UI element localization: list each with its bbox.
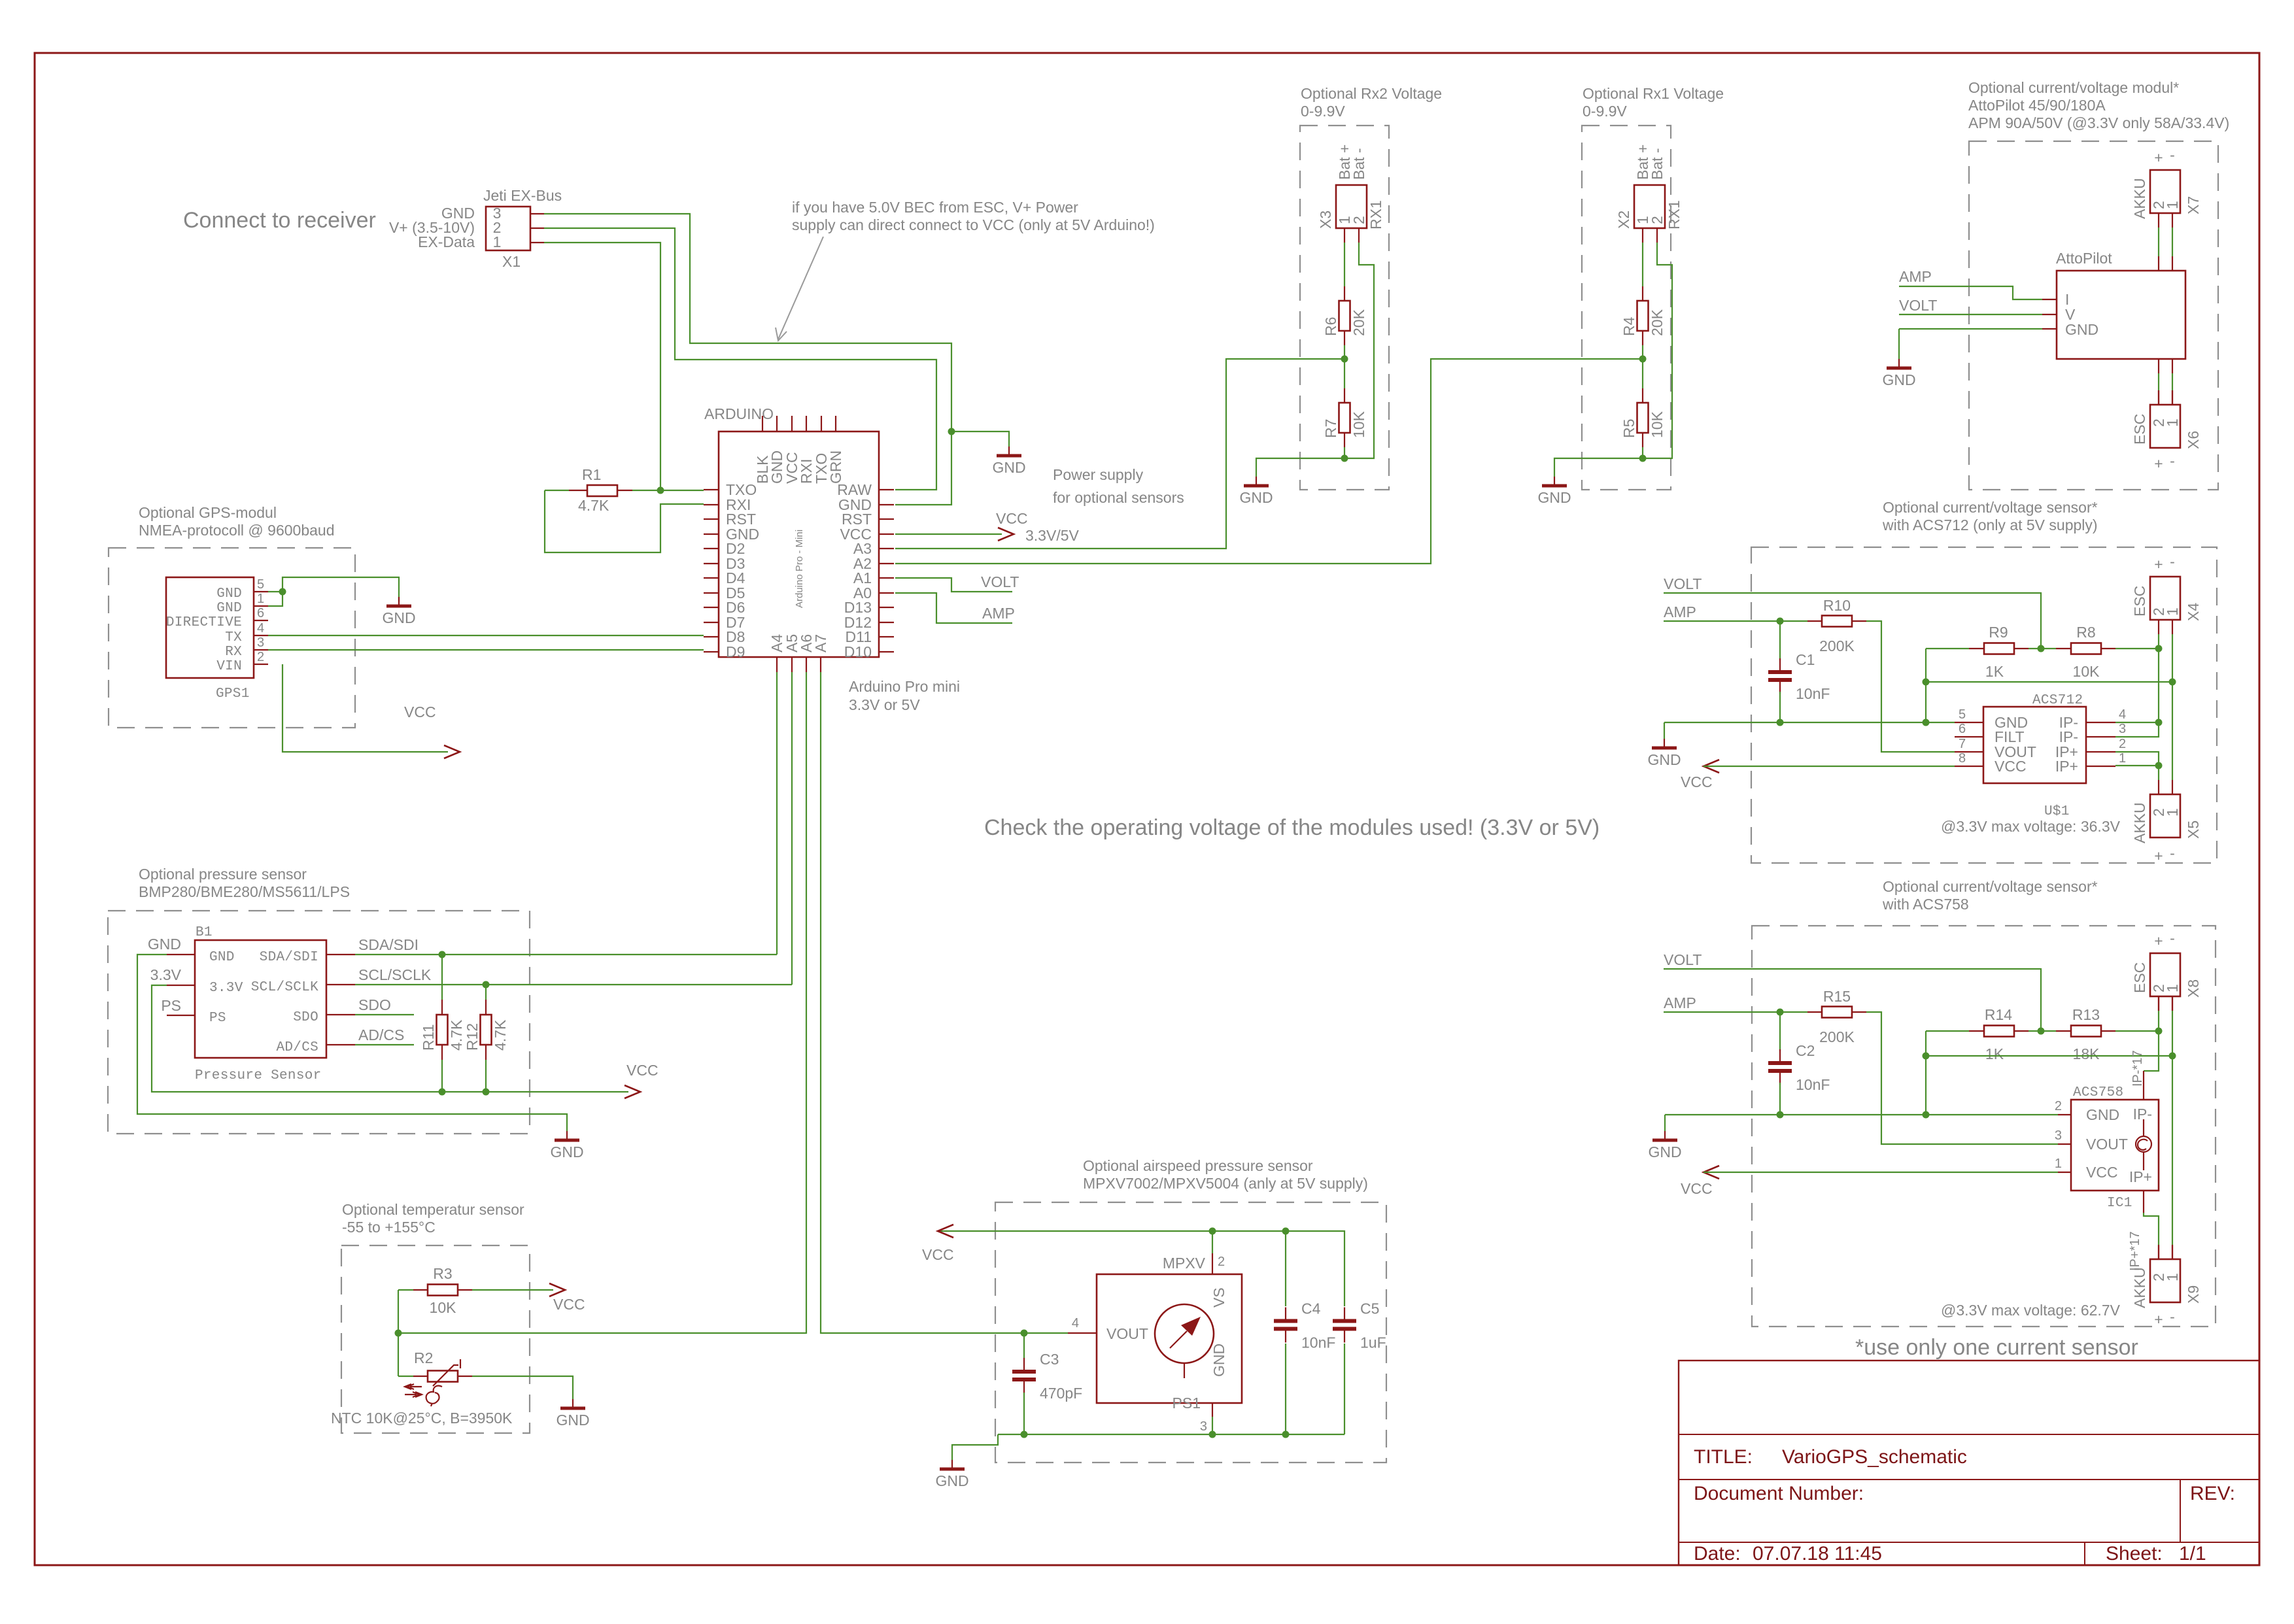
svg-text:VCC: VCC	[626, 1062, 659, 1079]
svg-text:ARDUINO: ARDUINO	[704, 405, 774, 422]
svg-text:C4: C4	[1301, 1300, 1321, 1317]
pressure sensor dashed outline	[108, 911, 530, 1134]
resistor R4 20K	[1642, 286, 1643, 301]
svg-text:2: 2	[2055, 1099, 2062, 1113]
Arduino left pin stubs	[704, 489, 719, 490]
svg-text:VCC: VCC	[553, 1296, 585, 1313]
junction Rx2 divider bottom	[1341, 455, 1348, 462]
svg-text:Optional pressure sensor: Optional pressure sensor	[139, 866, 307, 883]
wire R14 left leg down to GND rail	[1925, 1031, 1926, 1115]
VCC top rail of airspeed	[938, 1231, 1344, 1306]
svg-text:Optional airspeed pressure sen: Optional airspeed pressure sensor	[1083, 1157, 1313, 1174]
svg-text:7: 7	[1959, 737, 1966, 751]
junction Rx1 divider bottom	[1639, 455, 1647, 462]
ACS758 dashed outline	[1752, 926, 2216, 1327]
connector X5 AKKU	[2150, 794, 2180, 837]
wire X8 pin2 down to R13	[2158, 1011, 2159, 1031]
svg-text:-: -	[2170, 845, 2175, 862]
wire X4 pin2 down	[2158, 634, 2159, 649]
svg-text:R10: R10	[1823, 597, 1851, 614]
svg-text:GND: GND	[1239, 489, 1273, 506]
GPS dashed outline	[109, 548, 355, 728]
svg-text:-: -	[2170, 146, 2175, 163]
junction SCL/R12	[483, 981, 490, 989]
stub wire SDO	[355, 1014, 414, 1015]
svg-text:1K: 1K	[1985, 663, 2004, 680]
svg-text:SCL/SCLK: SCL/SCLK	[251, 980, 318, 995]
svg-text:TITLE:: TITLE:	[1694, 1446, 1753, 1468]
svg-text:MPXV7002/MPXV5004 (anly at 5V: MPXV7002/MPXV5004 (anly at 5V supply)	[1083, 1175, 1368, 1192]
connector X1	[486, 207, 530, 250]
wire VCC pin8	[1703, 766, 1955, 767]
resistor R12 4.7K	[485, 985, 487, 1000]
svg-text:Date:: Date:	[1694, 1543, 1741, 1565]
svg-text:+: +	[2154, 932, 2163, 949]
wire VOLT to V pin	[1899, 314, 2042, 315]
svg-text:B1: B1	[196, 925, 213, 940]
svg-text:10K: 10K	[1350, 411, 1367, 438]
ground symbol GPS	[398, 597, 400, 606]
svg-text:1: 1	[2164, 808, 2181, 817]
svg-text:1: 1	[2164, 418, 2181, 427]
Rx1 dashed outline	[1582, 126, 1671, 490]
svg-text:GND: GND	[1210, 1344, 1227, 1377]
svg-text:GPS1: GPS1	[216, 686, 250, 702]
svg-text:A7: A7	[812, 634, 829, 652]
svg-text:20K: 20K	[1350, 309, 1367, 336]
ACS758 pin stubs left	[2058, 1114, 2071, 1115]
svg-text:X2: X2	[1615, 211, 1632, 229]
svg-text:3.3V or 5V: 3.3V or 5V	[849, 696, 920, 713]
svg-text:TX: TX	[225, 630, 242, 645]
svg-text:10K: 10K	[1649, 411, 1666, 438]
wire X1 pin3 GND to Arduino GND and GND symbol	[544, 214, 951, 505]
wire A5 down to SCL net	[791, 672, 793, 985]
svg-text:R3: R3	[433, 1265, 452, 1282]
svg-text:GND: GND	[1647, 751, 1681, 768]
svg-text:R7: R7	[1322, 419, 1339, 438]
wire VOLT to R14/R13 junction	[1664, 969, 2041, 1031]
svg-text:IP-*17: IP-*17	[2131, 1050, 2145, 1087]
svg-text:Bat -: Bat -	[1350, 148, 1367, 180]
ground symbol Rx1	[1554, 477, 1555, 486]
wire Rx1 bottom to ground	[1554, 458, 1643, 477]
resistor R15 200K	[1807, 1011, 1822, 1013]
ground symbol ACS712	[1664, 739, 1665, 748]
wire A7 down to airspeed VOUT	[821, 672, 1024, 1333]
svg-text:2: 2	[257, 650, 264, 664]
NTC arrows symbol	[405, 1384, 422, 1389]
svg-text:2: 2	[1218, 1255, 1225, 1269]
svg-text:3: 3	[2055, 1128, 2062, 1143]
svg-text:GND: GND	[1882, 371, 1915, 388]
wire GND rail to ground symbol	[1664, 722, 1665, 739]
wire A0 to AMP net label	[895, 593, 1012, 623]
svg-text:@3.3V max voltage: 36.3V: @3.3V max voltage: 36.3V	[1941, 818, 2121, 835]
svg-text:GND: GND	[216, 586, 242, 601]
svg-text:1: 1	[2164, 1273, 2181, 1281]
svg-text:SDO: SDO	[293, 1010, 318, 1025]
junction C4 bottom	[1282, 1431, 1290, 1438]
svg-text:D9: D9	[726, 643, 745, 660]
junction GND/R9 branch	[1923, 719, 1930, 726]
svg-text:VOUT: VOUT	[1106, 1325, 1148, 1342]
resistor R14 1K	[1926, 1030, 1969, 1032]
svg-text:1: 1	[493, 233, 502, 250]
svg-text:4.7K: 4.7K	[578, 497, 609, 514]
svg-text:-: -	[2170, 1308, 2175, 1325]
svg-text:Optional GPS-modul: Optional GPS-modul	[139, 504, 277, 521]
svg-text:3: 3	[1200, 1419, 1207, 1434]
svg-text:Optional current/voltage modul: Optional current/voltage modul*	[1968, 79, 2179, 96]
GPS module GPS1	[166, 577, 254, 678]
resistor R10 200K	[1807, 620, 1822, 622]
junction Rx1 divider mid	[1639, 356, 1647, 363]
svg-text:20K: 20K	[1649, 309, 1666, 336]
svg-text:X9: X9	[2185, 1285, 2202, 1304]
svg-text:5: 5	[257, 577, 264, 592]
svg-text:IP+: IP+	[2129, 1168, 2152, 1185]
svg-text:VOLT: VOLT	[1664, 951, 1702, 968]
svg-text:VOUT: VOUT	[2086, 1136, 2128, 1153]
wire R1 bypass loop to RXI	[545, 490, 704, 552]
svg-text:5: 5	[1959, 707, 1966, 722]
Arduino top pin stubs BLK GND VCC RXI TXO GRN	[762, 416, 763, 431]
wire GND rail to ground symbol	[1664, 1115, 1666, 1131]
ground symbol near Arduino	[1008, 447, 1010, 456]
ground symbol Rx2	[1256, 477, 1257, 486]
ACS712 right pin stubs	[2086, 722, 2115, 723]
VCC supply arrow 3.3V/5V	[998, 528, 1014, 541]
wire IP- pin4 to X4 net	[2115, 722, 2159, 723]
svg-text:3.3V/5V: 3.3V/5V	[1025, 527, 1079, 544]
svg-text:NTC 10K@25°C, B=3950K: NTC 10K@25°C, B=3950K	[331, 1410, 513, 1427]
svg-text:R11: R11	[420, 1024, 437, 1051]
junction R11 bottom	[439, 1089, 446, 1096]
svg-text:C1: C1	[1796, 651, 1815, 668]
svg-text:4.7K: 4.7K	[492, 1019, 509, 1051]
svg-text:VCC: VCC	[1994, 758, 2027, 775]
svg-text:SDO: SDO	[358, 996, 391, 1013]
svg-text:-: -	[2170, 930, 2175, 947]
crossover rail to X5 pin1	[1926, 681, 2172, 683]
svg-text:GND: GND	[1648, 1143, 1681, 1160]
AttoPilot dashed outline	[1969, 141, 2218, 490]
junction C2 bottom	[1777, 1111, 1784, 1119]
svg-text:C2: C2	[1796, 1042, 1815, 1059]
wire SDA/SDI to A4	[355, 954, 777, 955]
svg-text:1: 1	[2119, 751, 2126, 766]
wire A2 to Rx1 divider	[895, 359, 1639, 564]
svg-text:C5: C5	[1360, 1300, 1379, 1317]
svg-text:GND: GND	[992, 459, 1025, 476]
junction temp divider mid	[395, 1330, 402, 1337]
wire A4 down to SDA net	[776, 672, 778, 955]
svg-text:U$1: U$1	[2044, 804, 2070, 819]
ground symbol AttoPilot	[1898, 359, 1900, 368]
svg-text:+: +	[2154, 556, 2163, 573]
crossover rail to X9 pin1	[1926, 1055, 2172, 1057]
wire GPS GND pin5	[268, 591, 282, 592]
svg-text:1: 1	[2055, 1157, 2062, 1171]
svg-text:GND: GND	[556, 1412, 589, 1429]
resistor R1 4.7K	[545, 490, 569, 491]
airspeed bottom GND rail	[998, 1434, 1344, 1435]
connector X4 ESC	[2150, 577, 2180, 620]
junction VOLT/R14/R13	[2038, 1028, 2045, 1035]
svg-text:ACS758: ACS758	[2073, 1085, 2123, 1100]
svg-text:GND: GND	[148, 936, 181, 953]
svg-text:RX1: RX1	[1367, 200, 1384, 229]
svg-text:8: 8	[1959, 751, 1966, 766]
junction C4 top	[1282, 1228, 1290, 1235]
svg-text:RX: RX	[225, 645, 242, 660]
svg-text:4: 4	[1072, 1316, 1079, 1330]
wire AMP to R10	[1664, 620, 1807, 622]
GND rail ACS758	[1665, 1114, 2058, 1115]
svg-text:VOLT: VOLT	[981, 573, 1019, 590]
junction GND/R14 branch	[1923, 1111, 1930, 1119]
junction Rx2 divider mid	[1341, 356, 1348, 363]
junction X4pin1 crossover rail	[1923, 679, 1930, 686]
ACS712 left pin stubs	[1955, 722, 1983, 723]
svg-text:Connect to receiver: Connect to receiver	[183, 208, 376, 233]
wire IP+ pins to X5 pin2	[2115, 752, 2159, 766]
svg-text:2: 2	[2119, 737, 2126, 751]
svg-text:-: -	[2170, 452, 2175, 469]
svg-text:GND: GND	[2086, 1106, 2119, 1123]
wire X8 pin1 down crossover	[2172, 1011, 2173, 1056]
wire GND net to ground symbol	[282, 577, 399, 601]
svg-text:Jeti EX-Bus: Jeti EX-Bus	[483, 187, 562, 204]
VCC arrow ACS758	[1703, 1166, 1719, 1179]
resistor R3 10K	[398, 1289, 413, 1291]
svg-text:ACS712: ACS712	[2032, 693, 2083, 708]
wire temp divider vertical	[398, 1290, 399, 1376]
wire X4 pin1 down crossover	[2172, 634, 2173, 682]
svg-text:R5: R5	[1620, 419, 1637, 438]
svg-text:3.3V: 3.3V	[209, 981, 243, 996]
PS1 pin 4 VOUT	[1068, 1332, 1097, 1334]
svg-text:R6: R6	[1322, 317, 1339, 336]
wire A3 to Rx2 divider	[895, 359, 1341, 549]
junction VOUT/C3	[1021, 1330, 1028, 1337]
wire X2 pin2 down right side	[1643, 243, 1672, 458]
svg-text:*use only one current sensor: *use only one current sensor	[1855, 1335, 2138, 1360]
connector X2	[1634, 185, 1665, 228]
wire GND pin to ground	[1899, 328, 2042, 330]
svg-text:X5: X5	[2185, 820, 2202, 839]
svg-text:3.3V: 3.3V	[150, 966, 182, 983]
capacitor C3 470pF	[1023, 1333, 1025, 1359]
svg-text:4: 4	[257, 621, 264, 635]
svg-text:Sheet:: Sheet:	[2106, 1543, 2163, 1565]
svg-text:Optional Rx2 Voltage: Optional Rx2 Voltage	[1301, 85, 1442, 102]
svg-text:GRN: GRN	[827, 450, 844, 484]
resistor R7 10K	[1344, 359, 1345, 388]
wire pin3 up to pin4 junction	[2115, 722, 2159, 737]
NTC theta symbol	[426, 1386, 442, 1406]
wire A1 to VOLT net label	[895, 578, 1012, 592]
wire B1 GND to ground	[137, 955, 567, 1131]
wire crossover down to X9 pin1	[2172, 1056, 2173, 1246]
svg-text:4.7K: 4.7K	[448, 1019, 465, 1051]
Rx2 dashed outline	[1300, 126, 1389, 490]
junction VOLT/R9/R8	[2038, 645, 2045, 652]
svg-text:2: 2	[1649, 216, 1666, 224]
wire R9 left leg down to GND rail	[1925, 649, 1926, 722]
AttoPilot pin stubs	[2042, 299, 2057, 300]
svg-text:Optional current/voltage senso: Optional current/voltage sensor*	[1883, 499, 2098, 516]
wire VCC pin to supply arrow	[895, 533, 1002, 535]
VCC arrow ACS712	[1703, 760, 1719, 773]
svg-text:DIRECTIVE: DIRECTIVE	[166, 615, 242, 630]
svg-text:VIN: VIN	[216, 659, 242, 674]
svg-text:0-9.9V: 0-9.9V	[1583, 103, 1627, 120]
VCC arrow pressure	[625, 1085, 640, 1098]
svg-text:VCC: VCC	[1681, 773, 1713, 790]
svg-text:AD/CS: AD/CS	[276, 1040, 318, 1055]
svg-text:+: +	[2154, 149, 2163, 166]
wire R15 to VOUT pin3	[1866, 1012, 2058, 1144]
svg-text:GND: GND	[216, 601, 242, 616]
wire R13 junction down to IP-	[2144, 1031, 2159, 1071]
svg-text:PS: PS	[209, 1011, 226, 1026]
svg-text:with ACS758: with ACS758	[1882, 896, 1969, 913]
svg-text:10nF: 10nF	[1301, 1334, 1335, 1351]
PS1 gauge symbol	[1155, 1304, 1214, 1363]
GND rail ACS712	[1664, 722, 1955, 723]
svg-text:BMP280/BME280/MS5611/LPS: BMP280/BME280/MS5611/LPS	[139, 883, 350, 900]
svg-text:AMP: AMP	[1664, 603, 1696, 620]
wire branch to GND symbol	[951, 431, 1009, 447]
wire crossover down to X5 pin1	[2172, 682, 2173, 780]
Arduino bottom pin stubs A4 A5 A6 A7	[776, 657, 778, 672]
svg-text:Power supply: Power supply	[1053, 466, 1144, 483]
stub wire AD/CS	[355, 1044, 414, 1045]
svg-text:EX-Data: EX-Data	[418, 233, 475, 250]
svg-text:R4: R4	[1620, 316, 1637, 336]
svg-text:IP+: IP+	[2055, 758, 2078, 775]
wire GPS RX to Arduino D9	[268, 649, 704, 651]
svg-text:07.07.18 11:45: 07.07.18 11:45	[1753, 1543, 1882, 1565]
svg-text:if you have 5.0V BEC from ESC,: if you have 5.0V BEC from ESC, V+ Power	[792, 199, 1078, 216]
wire B1 3.3V to VCC	[152, 985, 628, 1092]
B1 left pin stubs	[167, 954, 195, 955]
svg-text:SCL/SCLK: SCL/SCLK	[358, 966, 432, 983]
ACS712 dashed outline	[1751, 547, 2217, 863]
airspeed dashed outline	[995, 1202, 1386, 1463]
junction R12 bottom	[483, 1089, 490, 1096]
svg-text:470pF: 470pF	[1040, 1385, 1082, 1402]
svg-text:VCC: VCC	[922, 1246, 954, 1263]
capacitor C1 10nF	[1779, 621, 1781, 660]
svg-text:1: 1	[2164, 984, 2181, 992]
svg-text:NMEA-protocoll @ 9600baud: NMEA-protocoll @ 9600baud	[139, 522, 335, 539]
svg-text:Optional temperatur sensor: Optional temperatur sensor	[342, 1201, 524, 1218]
svg-text:GND: GND	[209, 950, 235, 965]
VCC arrow GPS	[444, 745, 460, 758]
svg-text:GND: GND	[382, 609, 415, 626]
svg-text:GND: GND	[935, 1472, 968, 1489]
junction PS1 GND	[1209, 1431, 1216, 1438]
svg-text:supply can direct connect to V: supply can direct connect to VCC (only a…	[792, 216, 1155, 233]
wire GPS GND pin1	[268, 592, 282, 606]
airspeed sensor PS1 MPXV	[1097, 1274, 1242, 1403]
svg-text:X3: X3	[1317, 211, 1334, 229]
ground symbol temperature	[572, 1399, 573, 1408]
svg-text:ESC: ESC	[2131, 962, 2148, 993]
svg-text:AD/CS: AD/CS	[358, 1026, 404, 1043]
svg-text:X4: X4	[2185, 603, 2202, 621]
svg-text:AKKU: AKKU	[2131, 802, 2148, 843]
svg-text:VS: VS	[1210, 1287, 1227, 1308]
svg-text:3: 3	[257, 635, 264, 650]
svg-text:+: +	[2154, 1311, 2163, 1328]
junction SDA/R11	[439, 951, 446, 958]
thermistor R2 NTC	[398, 1376, 413, 1377]
ACS758 IP+ bottom pin	[2143, 1191, 2144, 1213]
wire VCC pin1	[1703, 1172, 2058, 1173]
svg-text:Document Number:: Document Number:	[1694, 1483, 1864, 1504]
wire Rx2 bottom to ground	[1256, 458, 1344, 477]
svg-text:VCC: VCC	[2086, 1164, 2118, 1181]
svg-text:R15: R15	[1823, 988, 1851, 1005]
svg-text:GND: GND	[2065, 321, 2098, 338]
svg-text:PS1: PS1	[1173, 1395, 1201, 1412]
svg-text:4: 4	[2119, 707, 2126, 722]
svg-text:R2: R2	[414, 1349, 433, 1366]
svg-text:Check the operating voltage of: Check the operating voltage of the modul…	[984, 815, 1600, 840]
svg-text:AttoPilot: AttoPilot	[2056, 250, 2112, 267]
wire SCL/SCLK to A5	[355, 984, 792, 985]
svg-text:6: 6	[257, 606, 264, 620]
connector X7 AKKU	[2150, 170, 2180, 213]
junction VS	[1209, 1228, 1216, 1235]
R2 strike-through NTC mark	[433, 1365, 458, 1386]
svg-text:2: 2	[1350, 216, 1367, 224]
svg-text:10nF: 10nF	[1796, 1076, 1830, 1093]
svg-text:D10: D10	[844, 643, 872, 660]
svg-text:Optional current/voltage senso: Optional current/voltage sensor*	[1883, 878, 2098, 895]
svg-text:R12: R12	[464, 1023, 481, 1051]
svg-text:SDA/SDI: SDA/SDI	[358, 936, 419, 953]
resistor R9 1K	[1926, 648, 1969, 649]
svg-text:200K: 200K	[1819, 637, 1855, 654]
wires X7 to AttoPilot	[2158, 228, 2159, 256]
svg-text:GND: GND	[1537, 489, 1571, 506]
svg-text:1/1: 1/1	[2179, 1543, 2206, 1565]
svg-text:VOLT: VOLT	[1899, 297, 1937, 314]
svg-text:for optional sensors: for optional sensors	[1053, 489, 1184, 506]
X1 pin stubs	[530, 213, 544, 214]
wire A6 down to temperature divider	[398, 672, 806, 1333]
svg-text:Arduino Pro - Mini: Arduino Pro - Mini	[794, 530, 805, 608]
capacitor C2 10nF	[1779, 1012, 1781, 1051]
svg-text:with ACS712 (only at 5V supply: with ACS712 (only at 5V supply)	[1882, 516, 2098, 533]
svg-text:X6: X6	[2185, 431, 2202, 449]
svg-text:IP-: IP-	[2133, 1106, 2152, 1123]
svg-text:AMP: AMP	[1664, 994, 1696, 1011]
svg-text:10K: 10K	[2073, 663, 2100, 680]
resistor R11 4.7K	[441, 955, 443, 1000]
wire X3 pin2 down right side	[1344, 243, 1374, 458]
svg-text:ESC: ESC	[2131, 414, 2148, 445]
svg-text:PS: PS	[161, 997, 181, 1014]
wire X1 pin2 V+ to Arduino RAW	[544, 228, 936, 490]
svg-text:Arduino Pro mini: Arduino Pro mini	[849, 678, 960, 695]
svg-text:REV:: REV:	[2190, 1483, 2235, 1504]
